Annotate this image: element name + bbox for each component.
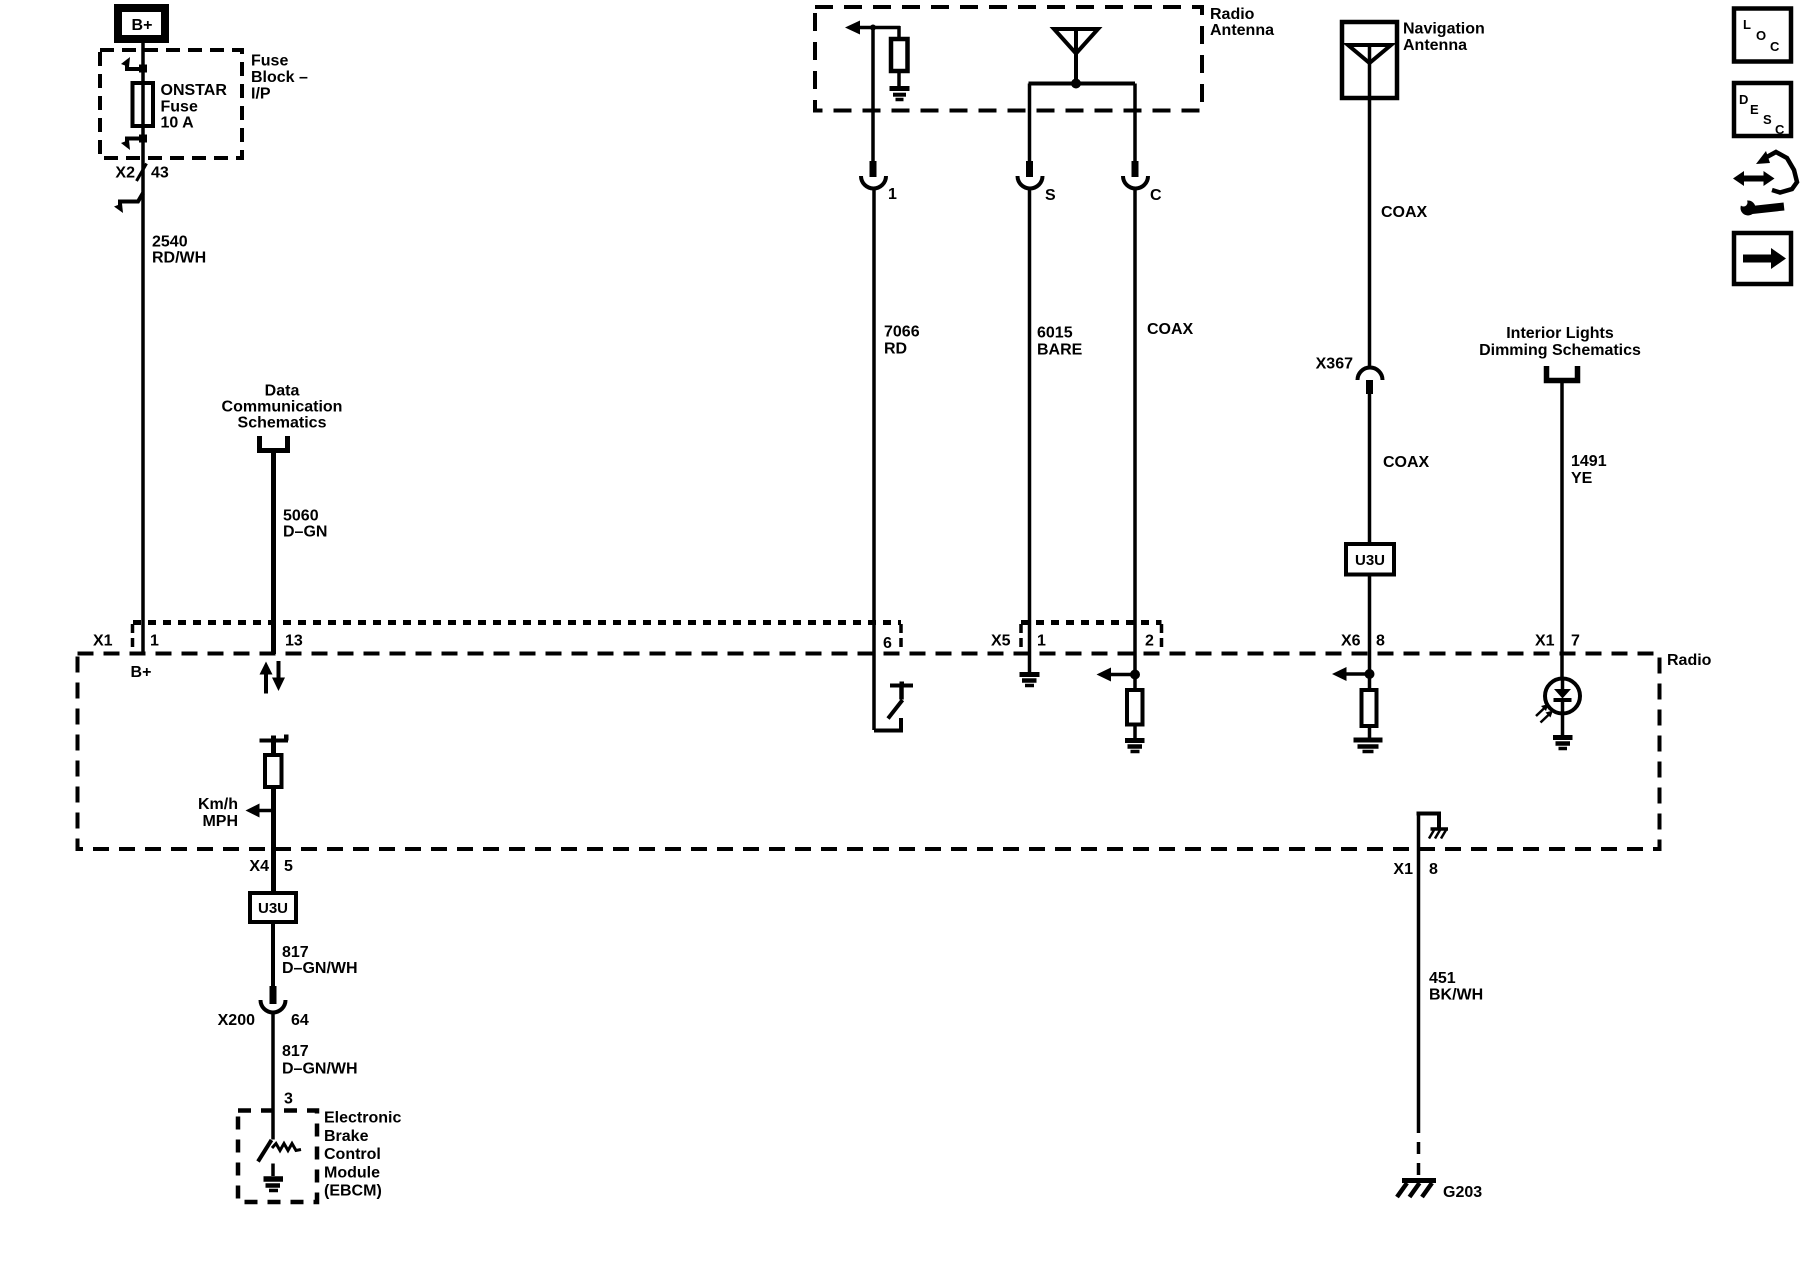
svg-text:Navigation: Navigation: [1403, 21, 1485, 38]
T-bar antenna tap inside radio: [260, 735, 289, 756]
svg-text:U3U: U3U: [1355, 552, 1385, 569]
svg-text:X4: X4: [249, 858, 269, 875]
label Electronic Brake Control Module (EBCM): [324, 1110, 401, 1200]
label Interior Lights Dimming Schematics: [1479, 325, 1641, 359]
svg-text:COAX: COAX: [1147, 321, 1194, 338]
svg-text:1: 1: [888, 186, 897, 203]
wire U3U to radio X6 pin 8: [1368, 575, 1372, 691]
svg-text:Radio: Radio: [1667, 652, 1712, 669]
svg-text:10 A: 10 A: [161, 115, 195, 132]
ground in antenna box: [890, 89, 910, 100]
fuse ONSTAR 10A: [133, 83, 154, 126]
connector X1 pin 8 labels: [1393, 861, 1438, 878]
svg-text:BARE: BARE: [1037, 342, 1083, 359]
wire B+ to fuse block: [141, 43, 145, 654]
svg-text:D–GN/WH: D–GN/WH: [282, 960, 358, 977]
label ONSTAR Fuse 10 A: [161, 82, 228, 132]
dashed wire to G203: [1417, 1121, 1421, 1178]
svg-text:8: 8: [1429, 861, 1438, 878]
svg-text:Schematics: Schematics: [238, 415, 327, 432]
svg-text:13: 13: [285, 633, 303, 650]
antenna mast symbol: [1029, 29, 1136, 89]
svg-text:Fuse: Fuse: [251, 53, 288, 70]
svg-text:(EBCM): (EBCM): [324, 1183, 382, 1200]
wire 6015 BARE down to radio X5 pin 1: [1028, 190, 1032, 672]
connector X1 dotted bracket: [133, 623, 902, 652]
svg-text:X1: X1: [1535, 633, 1555, 650]
chassis ground G203: [1397, 1181, 1482, 1202]
svg-text:6: 6: [883, 635, 892, 652]
in-line connector pin 1: [861, 161, 897, 203]
up/down arrows under pin 13: [260, 661, 286, 694]
navigation antenna box: [1342, 22, 1397, 98]
wire antenna lead C: [1133, 84, 1137, 162]
svg-text:X1: X1: [93, 633, 113, 650]
off-page bracket: [1547, 366, 1578, 381]
svg-text:C: C: [1150, 187, 1162, 204]
svg-text:64: 64: [291, 1012, 309, 1029]
LOC reference box: [1734, 9, 1791, 62]
svg-text:Radio: Radio: [1210, 6, 1255, 23]
svg-text:COAX: COAX: [1381, 204, 1428, 221]
svg-text:Control: Control: [324, 1146, 381, 1163]
svg-text:6015: 6015: [1037, 325, 1073, 342]
svg-text:COAX: COAX: [1383, 454, 1430, 471]
svg-text:2: 2: [1145, 633, 1154, 650]
wire label 5060 D-GN: [283, 508, 327, 541]
wire antenna lead S: [1028, 84, 1032, 162]
svg-text:43: 43: [151, 165, 169, 182]
svg-text:X200: X200: [218, 1012, 255, 1029]
wire below resistor to X4: [271, 787, 276, 893]
wire label 817 D-GN/WH lower: [273, 1012, 358, 1140]
Km/h MPH arrow: [198, 796, 274, 830]
svg-text:1: 1: [1037, 633, 1046, 650]
svg-text:X6: X6: [1341, 633, 1361, 650]
svg-text:X1: X1: [1393, 861, 1413, 878]
svg-text:X367: X367: [1316, 356, 1353, 373]
svg-text:B+: B+: [131, 664, 152, 681]
svg-text:B+: B+: [132, 17, 153, 34]
svg-text:D–GN: D–GN: [283, 524, 327, 541]
svg-text:BK/WH: BK/WH: [1429, 987, 1483, 1004]
svg-text:X2: X2: [115, 165, 135, 182]
nav antenna mast symbol: [1348, 45, 1391, 367]
DESC reference box: [1734, 83, 1791, 137]
svg-text:X5: X5: [991, 633, 1011, 650]
svg-text:S: S: [1763, 112, 1772, 127]
in-line connector X200 pin 64: [218, 986, 309, 1029]
in-line connector pin C: [1123, 161, 1162, 204]
switch with coil inside EBCM: [258, 1140, 301, 1162]
svg-text:D–GN/WH: D–GN/WH: [282, 1061, 358, 1078]
svg-text:YE: YE: [1571, 470, 1593, 487]
svg-text:Module: Module: [324, 1165, 380, 1182]
svg-text:C: C: [1770, 39, 1780, 54]
U3U option box (left): [250, 893, 296, 922]
label Navigation Antenna: [1403, 21, 1485, 55]
wire COAX down to radio X5 pin 2: [1133, 190, 1137, 690]
svg-text:7066: 7066: [884, 324, 920, 341]
svg-text:Antenna: Antenna: [1403, 37, 1467, 54]
svg-text:S: S: [1045, 187, 1056, 204]
wire 1491 YE: [1560, 383, 1564, 680]
wire 7066 RD down to radio pin 6: [872, 190, 876, 730]
svg-text:C: C: [1775, 122, 1785, 137]
svg-text:L: L: [1743, 17, 1751, 32]
LED / photocell symbol inside radio (X1 pin 7): [1536, 679, 1580, 736]
wire label 451 BK/WH: [1429, 970, 1483, 1004]
svg-text:817: 817: [282, 1043, 309, 1060]
wire antenna lead 1: [871, 28, 875, 162]
in-line connector X367: [1316, 356, 1383, 395]
svg-text:2540: 2540: [152, 234, 188, 251]
svg-text:451: 451: [1429, 970, 1456, 987]
svg-text:1491: 1491: [1571, 453, 1607, 470]
U3U option box (nav): [1346, 544, 1394, 575]
label Radio Antenna: [1210, 6, 1274, 39]
B+ power symbol box: [118, 8, 165, 39]
wire label 7066 RD: [884, 324, 920, 358]
wire label 1491 YE: [1571, 453, 1607, 487]
svg-text:G203: G203: [1443, 1184, 1482, 1201]
wire label 2540 RD/WH: [152, 234, 206, 267]
connector hook top (fuse block): [121, 57, 147, 73]
internal chassis ground inside radio: [1417, 814, 1449, 850]
label Fuse Block - I/P: [251, 53, 308, 103]
ground under X5 pin 1 inside radio: [1020, 675, 1040, 686]
connector X2 pin 43 labels and slash: [115, 164, 168, 182]
in-line connector pin S: [1018, 161, 1057, 204]
wire label 817 D-GN/WH upper: [273, 922, 358, 986]
arrow + resistor + ground under X6 pin 8 inside radio: [1332, 667, 1383, 752]
wire 5060: [271, 453, 276, 654]
ground under LED: [1553, 738, 1573, 749]
svg-text:Dimming Schematics: Dimming Schematics: [1479, 342, 1641, 359]
wire X367 to U3U: [1368, 394, 1372, 544]
svg-text:Km/h: Km/h: [198, 796, 238, 813]
svg-text:8: 8: [1376, 633, 1385, 650]
svg-text:RD/WH: RD/WH: [152, 250, 206, 267]
svg-text:D: D: [1739, 92, 1748, 107]
svg-text:I/P: I/P: [251, 86, 271, 103]
resistor inside radio (speed signal): [265, 755, 282, 787]
wire 451 BK/WH: [1417, 849, 1421, 1121]
fuse block dashed box Fuse Block - I/P: [100, 50, 242, 158]
connector X4 pin 5 labels: [249, 858, 293, 875]
svg-text:U3U: U3U: [258, 900, 288, 917]
svg-text:1: 1: [150, 633, 159, 650]
wire label 6015 BARE: [1037, 325, 1083, 359]
svg-text:O: O: [1756, 28, 1766, 43]
forward arrow box: [1734, 233, 1791, 284]
arrow to body ground (antenna box): [845, 21, 900, 35]
svg-text:E: E: [1750, 102, 1759, 117]
svg-text:RD: RD: [884, 341, 907, 358]
radio antenna dashed box: [815, 7, 1202, 111]
svg-text:Interior Lights: Interior Lights: [1506, 325, 1614, 342]
svg-text:Fuse: Fuse: [161, 99, 198, 116]
svg-text:Antenna: Antenna: [1210, 22, 1274, 39]
ground inside EBCM: [264, 1164, 284, 1191]
svg-text:3: 3: [284, 1091, 293, 1108]
EBCM dashed box: [238, 1111, 317, 1203]
svg-text:Communication: Communication: [222, 399, 343, 416]
off-page bracket: [260, 436, 288, 451]
resistor in antenna box: [891, 26, 908, 86]
svg-text:5060: 5060: [283, 508, 319, 525]
connector hook bottom (fuse block): [121, 135, 147, 151]
connector X5 dotted bracket: [1021, 623, 1162, 652]
label Data Communication Schematics: [222, 383, 343, 432]
svg-text:ONSTAR: ONSTAR: [161, 82, 228, 99]
svg-text:7: 7: [1571, 633, 1580, 650]
svg-text:Electronic: Electronic: [324, 1110, 401, 1127]
in-line connector hook below X2: [114, 193, 143, 213]
svg-text:Brake: Brake: [324, 1128, 369, 1145]
svg-text:Data: Data: [265, 383, 300, 400]
svg-text:5: 5: [284, 858, 293, 875]
switch symbol under pin 6 inside radio: [874, 682, 913, 731]
service tool icon (arrows + wrench): [1733, 151, 1797, 216]
svg-text:Block –: Block –: [251, 69, 308, 86]
svg-text:817: 817: [282, 944, 309, 961]
svg-text:MPH: MPH: [202, 813, 238, 830]
arrow + resistor + ground under X5 pin 2 inside radio: [1097, 668, 1145, 752]
